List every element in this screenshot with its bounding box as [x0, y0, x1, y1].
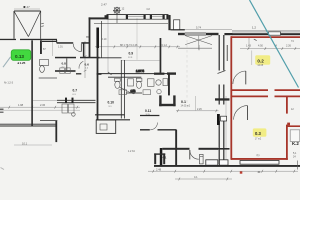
fixtures right of door	[200, 154, 204, 164]
red wall top horizontal	[231, 36, 300, 38]
svg-text:0.1: 0.1	[181, 100, 186, 104]
top wall band mid section	[89, 17, 105, 19]
wall y115.5 right segment	[140, 115, 159, 117]
bathroom verticals	[160, 38, 162, 73]
fixtures below corridor	[62, 104, 68, 113]
red dot mark	[240, 171, 243, 173]
svg-text:0.6: 0.6	[85, 63, 90, 67]
wall y73.6 left stub	[76, 73, 81, 75]
svg-text:1.43: 1.43	[246, 44, 251, 47]
svg-text:17 m2: 17 m2	[255, 139, 262, 141]
V brace in shaft box	[14, 12, 28, 37]
wall y130 with door gap	[140, 129, 150, 131]
red stub right	[286, 125, 300, 127]
lower edge thin of top wall	[94, 22, 168, 24]
door arc bottom block	[190, 150, 199, 159]
svg-text:0.9: 0.9	[129, 52, 134, 56]
red bottom wall	[231, 158, 288, 160]
window X dim arrow	[198, 45, 200, 50]
right edge small marks	[297, 161, 299, 170]
svg-text:0.2: 0.2	[257, 58, 264, 63]
room box below 0.10	[96, 120, 116, 133]
wall y57.8 room 0.9 south	[97, 57, 122, 59]
small box right of corridor	[221, 116, 227, 121]
horizontal dim left y145	[14, 144, 52, 146]
svg-text:2.48: 2.48	[156, 167, 162, 171]
svg-text:◄1.25: ◄1.25	[17, 61, 26, 65]
star symbol top mid	[113, 7, 121, 23]
corridor double wall verticals	[219, 35, 220, 71]
svg-text:0.13: 0.13	[15, 54, 24, 59]
dim line mid top corridor	[95, 46, 180, 48]
door jambs corridor left	[65, 98, 67, 103]
window opening X-mark	[185, 36, 212, 45]
bathroom fixtures row 2	[119, 90, 127, 95]
wall A: horizontal y39.5 left	[0, 39, 16, 40]
svg-text:C2: C2	[147, 7, 151, 11]
svg-text:4.1: 4.1	[194, 175, 198, 179]
red double wall mid horizontal	[231, 89, 268, 91]
svg-text:0.11: 0.11	[145, 109, 151, 113]
bottom dim line y171.2	[148, 170, 298, 172]
sinks in 0.8	[60, 68, 65, 74]
wall segment	[206, 33, 219, 35]
bottom-middle block	[160, 148, 163, 165]
wall: vertical right end of top band	[168, 15, 170, 30]
bathroom fixtures row	[115, 78, 121, 81]
label 0.2	[255, 55, 270, 65]
bathroom top wall y73.6 double	[97, 73, 176, 75]
svg-text:10.1: 10.1	[22, 142, 28, 146]
svg-text:2.36: 2.36	[40, 103, 46, 107]
vertical dim line x251.8	[251, 51, 253, 66]
dim line top right over windows	[178, 28, 232, 30]
bottom dim line y179	[175, 178, 232, 180]
wall y148.8 with door gap	[162, 148, 189, 150]
wall y115 / y120	[95, 114, 125, 116]
shaft box small (0.11)	[159, 95, 161, 106]
bottom wall with window boxes	[154, 165, 300, 167]
small rooms walls (0.8/0.6 block)	[55, 57, 76, 59]
wall: horizontal y41.5 with door gap (stepped)	[42, 41, 57, 42]
wall: short dark x41	[40, 40, 42, 54]
svg-text:0.7: 0.7	[73, 88, 78, 92]
corner connector x56.5	[56, 40, 58, 43]
wall: left corridor vertical x32	[31, 40, 33, 126]
window double line	[185, 32, 206, 34]
svg-text:0.3: 0.3	[255, 131, 261, 136]
corridor wall pair y100-103	[57, 99, 96, 101]
svg-text:1.98: 1.98	[18, 103, 24, 107]
shaft box with V mark (top-left)	[14, 10, 41, 12]
red wall left vertical	[230, 36, 232, 160]
mid vertical wall x97.5 dark top	[96, 28, 99, 49]
svg-text:(1): (1)	[257, 154, 260, 157]
svg-text:1.2 34: 1.2 34	[128, 150, 135, 153]
vertical wall x176	[175, 130, 177, 165]
svg-text:5.74: 5.74	[196, 25, 202, 29]
svg-text:1.85: 1.85	[131, 91, 136, 93]
svg-text:Nr 1.2-3: Nr 1.2-3	[4, 82, 14, 85]
svg-text:14.05 m2: 14.05 m2	[181, 105, 191, 107]
vertical dim right corridor	[225, 96, 227, 164]
small window box at step	[174, 20, 180, 30]
svg-text:14.05: 14.05	[257, 65, 263, 67]
door arcs corridor right	[233, 71, 246, 84]
wall: vertical x89.5	[89, 17, 91, 58]
dim line above shaft box	[14, 8, 40, 10]
left-mid double wall	[0, 123, 57, 125]
tick on corridor wall	[218, 71, 226, 74]
jamb line right of corridor	[226, 45, 228, 61]
wall segment right of corridor	[224, 33, 232, 35]
top-right wall y34 segment 1	[171, 29, 185, 30]
svg-text:0.10: 0.10	[108, 100, 115, 104]
label 0.3	[253, 128, 267, 136]
top-right windows band to the red area	[232, 33, 269, 35]
vertical gray x52.6	[52, 40, 54, 56]
svg-text:0.8: 0.8	[62, 61, 67, 65]
wall y99.4 left of room 0.3	[215, 98, 230, 100]
dim line right room 0.2	[240, 48, 300, 50]
dim dot above box	[23, 6, 25, 8]
bathroom partition and pointer	[126, 92, 142, 94]
small circle symbol mid	[72, 113, 76, 117]
svg-text:1.01: 1.01	[58, 46, 63, 49]
svg-text:K.2: K.2	[292, 141, 299, 146]
vertical dim line x249	[248, 38, 250, 49]
svg-text:2.10: 2.10	[102, 38, 107, 41]
svg-text:88 1.76 74 2.26: 88 1.76 74 2.26	[120, 44, 138, 47]
dim line room 0.1	[176, 110, 219, 112]
corridor wall dark fill block	[217, 114, 220, 125]
svg-text:2.26: 2.26	[197, 108, 202, 111]
mid vertical wall x122.5 double	[120, 60, 122, 119]
svg-text:2.47: 2.47	[101, 3, 107, 7]
door arc room 0.11	[150, 123, 157, 130]
K box label	[290, 130, 300, 142]
door arc 0.6 to 0.7	[79, 61, 83, 68]
vertical dim line left block	[84, 41, 86, 78]
door arc top-left block	[73, 44, 81, 52]
ticks right of shaft box	[41, 22, 44, 25]
svg-text:1.85 74: 1.85 74	[136, 70, 145, 73]
wall y148.8 over corridor to red wall	[218, 148, 230, 150]
WC fixtures left room	[40, 60, 49, 66]
svg-text:2.26: 2.26	[286, 44, 291, 47]
mid vertical wall second line x101.6	[101, 21, 103, 58]
svg-text:1.2: 1.2	[252, 25, 256, 29]
vertical dim corridor thin	[107, 17, 109, 73]
red right vertical of bottom room	[286, 96, 288, 113]
svg-text:41: 41	[258, 170, 262, 174]
horizontal dim left y108.8	[0, 106, 80, 108]
svg-text:4.50: 4.50	[258, 44, 263, 47]
